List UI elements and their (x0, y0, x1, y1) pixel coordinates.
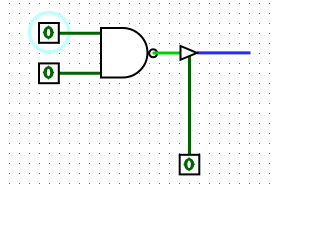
value label 0 of pin B (43, 66, 54, 80)
value label 0 of pin C (184, 157, 195, 171)
input pin C (value 0, control) (180, 155, 200, 175)
wire NAND output to buffer input (value 1) (154, 52, 181, 55)
value label 0 of pin A (43, 26, 54, 40)
wire from pin A to NAND input 1 (59, 32, 102, 35)
input pin B (value 0) (39, 63, 59, 83)
selection halo around pin A (30, 13, 69, 52)
wire from pin C to buffer control input (188, 56, 191, 155)
output wire from buffer (floating, blue) (197, 51, 251, 54)
NAND gate U1 (101, 28, 157, 78)
wire from pin B to NAND input 2 (59, 72, 102, 75)
NAND output bubble (149, 49, 157, 57)
controlled buffer U2 (181, 46, 198, 60)
input pin A (value 0) (39, 23, 59, 43)
